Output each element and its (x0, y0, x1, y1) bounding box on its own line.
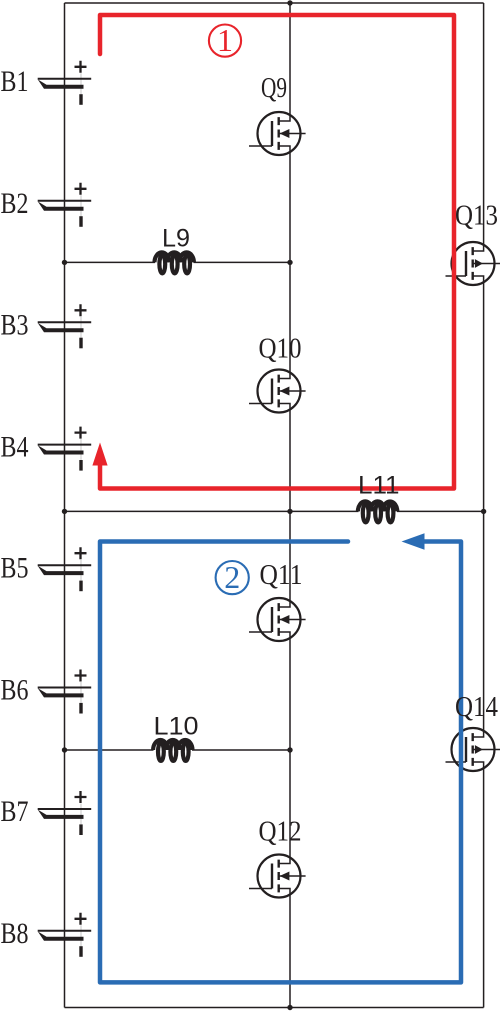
svg-text:Q12: Q12 (259, 817, 302, 848)
svg-text:Q10: Q10 (259, 334, 302, 365)
svg-text:B4: B4 (1, 431, 29, 464)
svg-text:Q9: Q9 (261, 73, 287, 104)
svg-text:L10: L10 (154, 713, 199, 741)
svg-text:Q11: Q11 (260, 560, 303, 591)
svg-text:B7: B7 (1, 795, 29, 828)
svg-text:L11: L11 (358, 472, 400, 500)
svg-text:1: 1 (217, 22, 233, 58)
svg-text:L9: L9 (162, 225, 190, 253)
svg-text:B6: B6 (1, 674, 29, 707)
svg-text:Q14: Q14 (455, 692, 498, 723)
svg-text:B3: B3 (1, 308, 29, 341)
svg-text:B2: B2 (1, 187, 29, 220)
svg-text:B5: B5 (1, 551, 29, 584)
svg-text:2: 2 (224, 559, 240, 595)
svg-text:Q13: Q13 (455, 201, 498, 232)
svg-text:B1: B1 (1, 65, 29, 98)
svg-text:B8: B8 (1, 917, 29, 950)
